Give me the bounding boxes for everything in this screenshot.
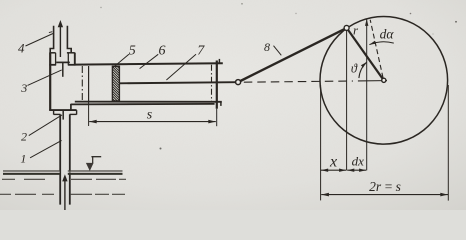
svg-text:5: 5 (129, 44, 136, 59)
svg-text:3: 3 (20, 81, 27, 95)
svg-text:2r = s: 2r = s (369, 179, 401, 194)
svg-text:1: 1 (20, 152, 26, 166)
svg-text:dx: dx (352, 154, 365, 169)
svg-text:7: 7 (197, 44, 205, 59)
svg-text:x: x (329, 153, 337, 170)
svg-text:ϑ: ϑ (351, 62, 358, 76)
svg-text:8: 8 (264, 40, 270, 54)
svg-text:dα: dα (380, 27, 395, 42)
svg-text:6: 6 (159, 44, 166, 59)
svg-text:s: s (147, 108, 153, 123)
svg-text:2: 2 (21, 130, 27, 144)
svg-text:4: 4 (18, 41, 25, 56)
